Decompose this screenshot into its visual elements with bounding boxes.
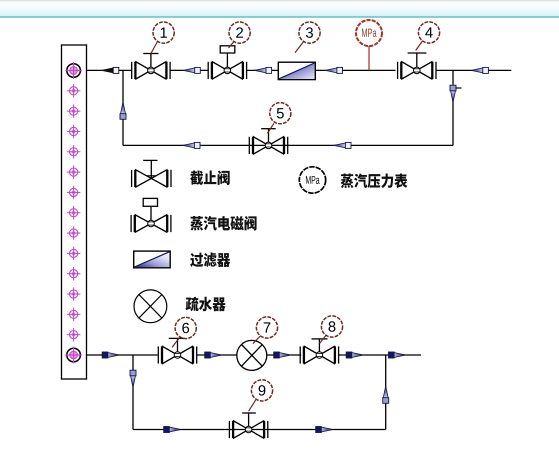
- legend steam trap symbol: [134, 290, 167, 323]
- leader to 4: [416, 41, 423, 50]
- leader to 2: [229, 42, 235, 49]
- legend text: steam solenoid valve: [190, 216, 256, 231]
- radiator manifold body: [62, 45, 87, 379]
- manifold branch circles: [67, 84, 80, 341]
- flow arrow left (between valve 2 and filter): [254, 67, 271, 73]
- manifold bottom connection circle: [65, 347, 82, 364]
- callout circle 5: [270, 103, 291, 124]
- manifold top connection circle: [65, 62, 82, 79]
- flow arrow right (bypass 9 east): [316, 427, 333, 433]
- flow arrow right (condensate outlet): [389, 352, 406, 358]
- legend stop valve symbol: [132, 160, 171, 187]
- flow arrow up (bypass return riser): [120, 102, 126, 119]
- callout circle 6: [175, 317, 196, 338]
- leader to 1: [151, 42, 158, 54]
- flow arrow right (after valve 8): [346, 352, 363, 358]
- leader to 7: [253, 336, 260, 343]
- pipe valve1-valve2: [170, 69, 208, 71]
- flow arrow left (top pipe near manifold): [102, 67, 119, 73]
- top bypass pipe: [123, 144, 453, 146]
- stop valve 4: [398, 53, 436, 79]
- callout circle 7: [256, 317, 277, 338]
- pipe filter-valve4: [315, 69, 395, 71]
- stop valve 6: [158, 338, 196, 363]
- bottom bypass right riser: [385, 355, 387, 430]
- flow arrow up (bypass 9 riser): [383, 386, 389, 403]
- legend stem tick: [147, 175, 156, 177]
- flow arrow down (bypass 9 drop): [130, 370, 136, 387]
- leader to 9: [249, 400, 256, 411]
- filter 3: [278, 62, 315, 79]
- pipe valve2-filter: [247, 69, 279, 71]
- leader to 8: [320, 335, 327, 343]
- flow arrow right (bypass 9 west): [164, 427, 181, 433]
- pipe valve8-end: [339, 354, 421, 356]
- leader to 3: [295, 42, 304, 53]
- flow arrow down (bypass feed drop): [450, 85, 456, 102]
- pipe valve6-trap: [197, 354, 237, 356]
- legend text: steam trap: [186, 297, 226, 312]
- callout circle 4: [418, 22, 439, 43]
- stop valve 1: [132, 54, 170, 80]
- leader to 5: [267, 123, 274, 133]
- bottom bypass left drop: [132, 355, 134, 430]
- callout circle 8: [321, 316, 342, 337]
- legend text: filter: [190, 253, 230, 268]
- steam trap 7: [237, 340, 267, 370]
- bottom main pipe: manifold to valve 6: [87, 354, 158, 356]
- cyan frame line: [0, 16, 559, 18]
- flow arrow left (supply inlet): [471, 67, 488, 73]
- bottom bypass pipe: [133, 429, 386, 431]
- callout circle 2: [229, 22, 250, 43]
- pipe trap-valve8: [267, 354, 301, 356]
- callout circle 9: [251, 380, 272, 401]
- flow arrow left (after filter): [325, 67, 342, 73]
- pressure gauge MPa: [356, 20, 382, 46]
- radiator manifold centerline: [73, 35, 75, 400]
- top main pipe: manifold to valve 1: [87, 69, 132, 71]
- legend text: steam pressure gauge: [341, 173, 408, 188]
- top border band: [0, 0, 559, 16]
- legend filter symbol: [134, 251, 171, 268]
- bypass stop valve 5: [249, 129, 287, 154]
- pressure gauge tap line: [368, 46, 370, 70]
- legend text: stop valve: [190, 170, 230, 185]
- legend pressure gauge symbol: [299, 167, 325, 193]
- solenoid valve 2: [208, 46, 246, 79]
- callout circle 3: [299, 22, 320, 43]
- flow arrow left (between valve 1 and 2): [183, 67, 200, 73]
- flow arrow left (bypass west): [183, 142, 200, 148]
- pipe valve4-right: [436, 69, 511, 71]
- flow arrow left (bypass east): [334, 142, 351, 148]
- stop valve 8: [300, 339, 338, 364]
- top bypass right drop: [452, 70, 454, 145]
- top bypass left riser: [122, 70, 124, 145]
- bypass drop hook tick: [456, 87, 462, 89]
- flow arrow right (trap to valve 8): [274, 352, 291, 358]
- callout circle 1: [153, 22, 174, 43]
- flow arrow right (valve6 to trap): [205, 352, 222, 358]
- flow arrow right (condensate out): [102, 352, 119, 358]
- bypass stop valve 9: [229, 413, 267, 438]
- leader to 6: [172, 338, 180, 348]
- legend solenoid valve symbol: [131, 198, 171, 232]
